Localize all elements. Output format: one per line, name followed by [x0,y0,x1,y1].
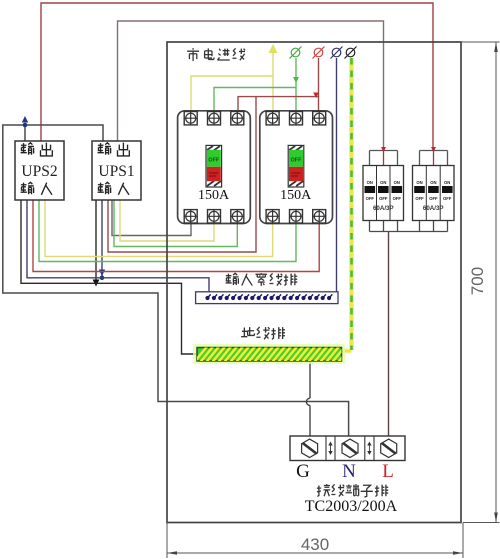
svg-text:OFF: OFF [429,196,438,201]
svg-text:150A: 150A [198,188,230,203]
svg-text:ON: ON [416,180,422,185]
wire: phase A yellow feed to both breakers [191,50,273,111]
screw N [342,439,358,457]
gland: navy cable entry [331,47,343,59]
wire: UPS2 output live (red) from UPS2 top up over to MCB group 2 [41,3,433,151]
dimension: 430 bottom [167,523,463,559]
svg-text:UPS2: UPS2 [21,163,57,180]
wire: neutral navy from gland down to neutral bus bar [336,58,338,292]
svg-text:OFF: OFF [415,196,424,201]
neutral bus bar [196,292,338,304]
svg-text:OFF: OFF [366,196,375,201]
wire: MCB outputs joined to L terminal [370,221,448,232]
ground bar (green/yellow hatched) [192,344,359,365]
dimension: 700 right side [461,42,500,523]
svg-text:G: G [296,461,310,482]
terminal block TC2003/200A [290,436,405,461]
gland: black cable entry [345,47,357,59]
gland: red cable entry [313,47,325,59]
wire: UPS1 output live (maroon) from UPS1 top up over to MCB group 1 [118,21,384,151]
svg-text:OFF: OFF [208,158,220,164]
breaker MCB group 1 60A/3P [363,166,404,221]
enclosure: distribution panel outline [167,42,461,523]
svg-text:L: L [382,461,394,482]
wire: PE green/yellow dashed from gland down to ground bar [341,58,352,351]
wire: MCB group1 red feed bracket [370,151,398,166]
UPS2 box [15,141,64,200]
wire: UPS2 PE black to ground bar [21,200,197,354]
breaker MCB group 2 60A/3P [413,166,455,221]
label: 输入零线排 (input neutral bus) [226,273,298,286]
svg-text:60A/3P: 60A/3P [423,205,444,212]
wire: UPS1 maroon tap up between breakers to phase C [108,97,256,252]
svg-text:TC2003/200A: TC2003/200A [305,498,398,515]
breaker MCCB2 150A [260,111,333,224]
wire: MCCB2 pole A output (yellow) to UPS2 [45,200,273,257]
svg-text:OFF: OFF [393,196,402,201]
svg-text:ON: ON [430,180,436,185]
wire: MCCB2 pole B output (green) to UPS2 [39,200,296,262]
wire: ground bar down to G terminal with hop [306,361,310,436]
label: 地线排 (ground bus) [241,327,285,339]
svg-text:UPS1: UPS1 [98,163,134,180]
wire: phase B green feed to both breakers [214,58,296,111]
wire: UPS2 neutral branch from loop [24,125,26,141]
svg-text:OFF: OFF [443,196,452,201]
screw G [302,439,318,457]
gland: green cable entry [290,47,302,59]
wire: UPS1 PE black down to junction [95,200,97,281]
svg-text:ON: ON [367,180,373,185]
screw L [381,439,397,457]
svg-text:ON: ON [394,180,400,185]
switch label of MCCB1 [206,145,222,187]
svg-text:150A: 150A [280,188,312,203]
wire: MCB group2 red feed bracket [420,151,448,166]
svg-text:430: 430 [301,535,329,554]
svg-text:ON: ON [444,180,450,185]
svg-text:OFF: OFF [291,158,303,164]
breaker MCCB1 150A [178,111,251,224]
wire: UPS1 neutral down to junction [101,200,103,278]
svg-text:ON: ON [380,180,386,185]
label: 市电进线 (mains incoming) [187,48,245,61]
switch label of MCCB2 [288,145,304,187]
wire: phase C maroon feed to both breakers [238,58,319,111]
svg-text:N: N [342,461,356,482]
svg-text:OFF: OFF [379,196,388,201]
wire: MCCB2 pole C output (red) to UPS2 [33,200,319,272]
wire: UPS2 neutral to neutral bus bar [27,200,209,292]
wire: output neutral loop from UPS tops down left side to N terminal [3,125,349,436]
label: 接线端子排 [317,484,388,497]
wire: MCCB1 pole C output (green) to UPS1 [114,200,237,247]
node: junction dot on neutral loop at UPS2 branch [23,123,28,128]
svg-text:60A/3P: 60A/3P [373,205,394,212]
UPS1 box [92,141,141,200]
wire: MCCB1 pole A output to UPS1 [112,200,191,236]
svg-text:700: 700 [468,267,487,295]
wire: MCCB1 pole B output (yellow) to UPS1 [120,200,214,241]
